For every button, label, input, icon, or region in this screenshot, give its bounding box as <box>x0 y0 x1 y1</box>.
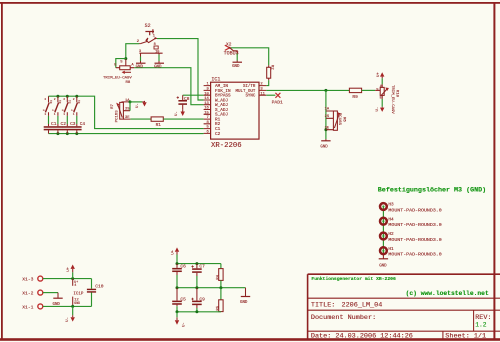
wire S2 pin2 to R8 wiper <box>126 44 139 59</box>
pad PAD1 <box>272 93 283 106</box>
wire C7 to mid bus <box>196 276 198 288</box>
svg-text:2S: 2S <box>325 115 330 119</box>
right pin stubs <box>259 86 266 96</box>
resistor R2 <box>267 65 274 81</box>
title block texts <box>311 276 492 341</box>
connector X1-2 <box>22 290 43 297</box>
svg-text:(c) www.loetstelle.net: (c) www.loetstelle.net <box>406 290 489 297</box>
svg-text:H4: H4 <box>388 217 394 222</box>
capacitor C2 <box>53 116 66 134</box>
svg-text:GND: GND <box>154 66 162 70</box>
svg-text:MOUNT-PAD-ROUND3.0: MOUNT-PAD-ROUND3.0 <box>388 222 441 228</box>
wire X2 sleeve to GND <box>236 54 238 61</box>
svg-text:13: 13 <box>204 102 209 106</box>
wire R9 to R10 wiper <box>362 89 376 91</box>
switch S1A <box>43 96 53 116</box>
svg-text:2: 2 <box>63 98 65 101</box>
ground (X1-2) <box>53 293 63 307</box>
svg-text:7: 7 <box>207 116 209 120</box>
ground (mount pads) <box>379 255 388 269</box>
svg-text:S1: S1 <box>59 100 62 104</box>
svg-text:R8: R8 <box>126 81 131 85</box>
svg-text:1: 1 <box>73 113 75 116</box>
svg-text:X1-3: X1-3 <box>22 277 33 283</box>
svg-text:XR-2206: XR-2206 <box>211 142 242 150</box>
capacitor C7 (polarized) <box>191 264 205 276</box>
svg-text:S2: S2 <box>145 23 151 29</box>
mount pad H2 <box>380 232 442 243</box>
svg-text:T: T <box>53 109 56 111</box>
svg-text:C2: C2 <box>61 121 67 127</box>
title block <box>308 274 500 339</box>
svg-text:14: 14 <box>204 97 209 101</box>
wire R7 wiper tie <box>129 102 131 111</box>
svg-text:U+: U+ <box>171 249 175 254</box>
svg-text:1: 1 <box>44 113 46 116</box>
switch S1D <box>72 96 82 116</box>
svg-text:1.2: 1.2 <box>475 321 487 328</box>
svg-text:T: T <box>43 109 46 111</box>
wire output junction down to R6 <box>325 90 327 139</box>
svg-text:15: 15 <box>204 111 209 115</box>
svg-text:GND: GND <box>74 301 80 305</box>
resistor R1 <box>151 117 163 128</box>
node R6 E junction <box>324 128 327 131</box>
trimmer R8 <box>103 59 134 85</box>
svg-text:PAD1: PAD1 <box>272 100 283 106</box>
svg-text:TRIM_EU-CA9V: TRIM_EU-CA9V <box>390 85 394 114</box>
wire to GND right <box>158 53 160 54</box>
svg-text:MOUNT-PAD-ROUND3.0: MOUNT-PAD-ROUND3.0 <box>388 252 441 258</box>
svg-text:SYNC: SYNC <box>245 95 255 99</box>
svg-text:PC16S: PC16S <box>115 110 119 123</box>
resistor R9 <box>349 88 361 100</box>
connector X2 <box>224 41 239 56</box>
wire capacitor-bank top bus to IC1 pin 5 <box>49 96 204 128</box>
svg-text:U+: U+ <box>377 72 381 77</box>
svg-text:S1: S1 <box>50 100 53 104</box>
capacitor C8 (bypass, polarized) <box>177 95 204 110</box>
pin numbers left <box>204 83 209 135</box>
svg-text:TITLE:: TITLE: <box>311 301 335 309</box>
svg-text:T: T <box>62 109 65 111</box>
svg-text:C5: C5 <box>180 296 186 302</box>
svg-text:Sheet: 1/1: Sheet: 1/1 <box>445 333 486 341</box>
op-amp U1 = IC1 XR-2206 <box>204 76 267 150</box>
svg-text:GND: GND <box>232 65 240 69</box>
wire power block mid bus <box>177 287 246 289</box>
svg-text:3E: 3E <box>325 126 330 130</box>
svg-text:S1: S1 <box>69 100 72 104</box>
node top bus junctions <box>56 95 59 98</box>
supply U+ (power block) <box>171 247 179 263</box>
wire R8 A to IC1 pin 13 <box>134 68 203 105</box>
svg-text:C10: C10 <box>95 284 104 290</box>
svg-text:R6: R6 <box>341 117 345 122</box>
wire IC1 MULT_OUT output net <box>266 89 349 91</box>
ground (right of S2 frame) <box>154 63 164 69</box>
svg-text:3E: 3E <box>125 116 130 120</box>
ground (below X2) <box>232 62 242 69</box>
svg-text:U-: U- <box>183 322 187 327</box>
svg-text:H1: H1 <box>388 247 394 252</box>
svg-text:U+: U+ <box>67 266 71 271</box>
ground (power block) <box>240 288 250 305</box>
pin numbers right <box>260 83 265 97</box>
svg-text:H2: H2 <box>388 232 394 237</box>
ground (below R6) <box>320 139 330 149</box>
wire capacitor-bank bottom bus to IC1 pin 6 <box>49 133 204 135</box>
svg-text:2: 2 <box>73 98 75 101</box>
trimmer R10 <box>375 84 399 114</box>
svg-text:X1-1: X1-1 <box>22 305 33 311</box>
svg-text:Document Number:: Document Number: <box>311 314 376 322</box>
capacitor C1 <box>44 116 57 134</box>
svg-text:U-: U- <box>376 107 380 112</box>
wire mount pad chain <box>382 207 384 256</box>
wire C6 to mid bus <box>176 275 178 288</box>
svg-text:U-: U- <box>175 111 179 116</box>
node output junction <box>324 89 327 92</box>
wire R2 to IC1 pin 2 <box>266 80 268 85</box>
potentiometer R7 <box>111 99 131 123</box>
wire X2 tip to R2 <box>231 48 269 65</box>
svg-text:C1: C1 <box>51 121 57 127</box>
svg-text:2: 2 <box>54 98 56 101</box>
node junction S2/R8 <box>124 57 127 60</box>
wire R7 E to R1 <box>130 118 151 120</box>
wire X1-2 to ground <box>43 292 58 294</box>
left pin stubs <box>204 86 211 134</box>
svg-text:MOUNT-PAD-ROUND3.0: MOUNT-PAD-ROUND3.0 <box>388 207 441 213</box>
svg-text:H3: H3 <box>388 203 394 208</box>
svg-text:C7: C7 <box>199 264 205 270</box>
svg-text:MULT_OUT: MULT_OUT <box>236 90 256 94</box>
capacitor C9 (polarized) <box>191 288 205 308</box>
supply U- (below C8) <box>175 110 185 116</box>
node R7 A/S junction <box>129 100 132 103</box>
svg-text:PC16S: PC16S <box>337 113 341 126</box>
svg-text:R10: R10 <box>395 90 399 98</box>
resistor R5 <box>216 288 223 312</box>
pin names left <box>215 84 231 137</box>
svg-text:2: 2 <box>44 98 46 101</box>
supply U- (X1 block) <box>66 306 75 321</box>
mount pad H3 <box>380 203 442 214</box>
svg-text:R1: R1 <box>156 122 162 128</box>
svg-text:GND: GND <box>320 145 328 149</box>
mount pad H4 <box>380 217 442 228</box>
svg-text:X1-2: X1-2 <box>22 291 33 297</box>
svg-text:TOBU3: TOBU3 <box>224 50 239 56</box>
wire X1-3 to C10 <box>43 278 92 280</box>
wire R8 E loop <box>116 59 126 68</box>
svg-text:2206_LM_04: 2206_LM_04 <box>342 301 383 309</box>
svg-text:16: 16 <box>204 107 209 111</box>
svg-text:10: 10 <box>204 92 209 96</box>
svg-text:R2: R2 <box>270 65 274 70</box>
svg-text:GND: GND <box>379 265 387 269</box>
supply U+ (above R10) <box>377 72 385 85</box>
svg-text:R9: R9 <box>352 94 358 100</box>
svg-text:Befestigungslöcher M3 (GND): Befestigungslöcher M3 (GND) <box>378 187 486 195</box>
capacitor C10 <box>87 279 104 307</box>
svg-text:R5: R5 <box>216 305 220 310</box>
svg-text:C2: C2 <box>215 132 221 137</box>
svg-text:11: 11 <box>260 92 265 96</box>
wire IC1 SYNC to PAD1 <box>266 94 275 96</box>
svg-text:1A: 1A <box>325 108 330 112</box>
svg-text:1: 1 <box>63 113 65 116</box>
svg-text:C3: C3 <box>70 121 76 127</box>
supply U- (power block) <box>175 312 187 327</box>
resistor R4 <box>216 264 223 288</box>
svg-text:U-: U- <box>66 317 70 322</box>
svg-text:Date: 24.03.2006 12:44:26: Date: 24.03.2006 12:44:26 <box>311 333 413 341</box>
svg-text:R4: R4 <box>216 274 220 279</box>
svg-text:C4: C4 <box>80 121 86 127</box>
svg-text:U-: U- <box>136 103 140 108</box>
wire C9 to bottom bus <box>196 308 198 312</box>
supply U+ (X1 block) <box>67 265 75 279</box>
switch S2 <box>137 23 157 44</box>
ground (left of S2 frame) <box>136 63 146 69</box>
supply U- (below R10) <box>376 99 384 112</box>
svg-text:GND: GND <box>136 66 144 70</box>
potentiometer R6 <box>325 108 346 131</box>
wire R1 to IC1 pin 7 <box>163 118 203 120</box>
capacitor C3 <box>63 116 76 134</box>
capacitor C6 <box>172 264 186 275</box>
svg-text:R7: R7 <box>111 103 115 108</box>
svg-text:SI/TR: SI/TR <box>243 84 256 89</box>
wire to GND left <box>140 53 142 56</box>
svg-text:T: T <box>72 109 75 111</box>
svg-text:Funktionsgenerator mit XR-2206: Funktionsgenerator mit XR-2206 <box>311 276 396 282</box>
svg-text:IC1P: IC1P <box>73 293 84 297</box>
IC1P power pins <box>73 279 84 307</box>
wire X1-1 to C10 bottom <box>43 305 92 307</box>
mount pad H1 <box>380 247 442 258</box>
svg-text:S1: S1 <box>78 100 81 104</box>
switch S2 frame contacts (pins 3,10) <box>139 43 163 54</box>
wire S2 pin1 to IC1 pin 14 <box>157 39 204 100</box>
connector X1-1 <box>22 304 43 311</box>
svg-text:C6: C6 <box>180 264 186 270</box>
switch S1C <box>62 96 72 116</box>
svg-text:IC1: IC1 <box>211 76 220 82</box>
wire power block top bus <box>177 263 221 265</box>
svg-text:4: 4 <box>74 284 76 288</box>
switch S1B <box>53 96 63 116</box>
svg-text:TRIM_EU-CA9V: TRIM_EU-CA9V <box>103 76 132 80</box>
capacitor C5 <box>172 288 186 307</box>
node bottom bus junctions <box>56 132 59 135</box>
svg-text:MOUNT-PAD-ROUND3.0: MOUNT-PAD-ROUND3.0 <box>388 237 441 243</box>
pin names right <box>236 84 256 99</box>
svg-text:1: 1 <box>54 113 56 116</box>
svg-text:U+: U+ <box>74 280 78 284</box>
capacitor C4 <box>72 116 85 134</box>
svg-text:C9: C9 <box>199 296 205 302</box>
connector X1-3 <box>22 276 43 283</box>
svg-text:GND: GND <box>240 301 248 305</box>
wire C5 to bottom bus <box>176 306 178 312</box>
supply U- (right of R7) <box>130 101 147 108</box>
wire power block bottom bus <box>177 311 221 313</box>
